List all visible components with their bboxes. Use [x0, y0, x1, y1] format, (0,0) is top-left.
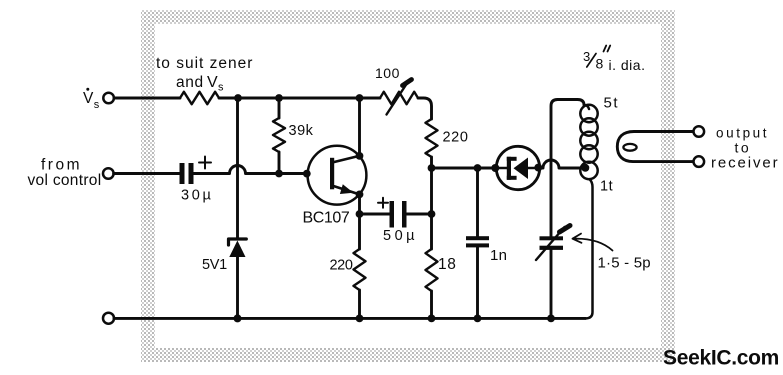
terminal from vol control: [103, 168, 114, 179]
svg-text:8: 8: [596, 56, 604, 72]
junction: [275, 94, 283, 102]
junction: [474, 164, 482, 172]
label Vs: [83, 88, 100, 111]
svg-text:50µ: 50µ: [383, 228, 418, 244]
svg-text:receiver: receiver: [711, 155, 780, 172]
terminal ground: [103, 313, 114, 324]
junction: [356, 152, 364, 160]
capacitor 50u: [360, 201, 432, 228]
junction: [474, 315, 482, 323]
capacitor 1n: [466, 168, 489, 318]
wire diode row: [432, 167, 497, 170]
wire: [219, 97, 380, 100]
zener 5V1: [229, 98, 247, 318]
svg-text:V: V: [83, 90, 94, 107]
capacitor 1.5-5p: [536, 226, 570, 319]
junction: [234, 94, 242, 102]
resistor 18: [426, 249, 438, 291]
wire: [430, 214, 433, 249]
svg-text:30µ: 30µ: [181, 188, 214, 204]
wire with hop over zener line: [194, 166, 308, 174]
junction: [356, 191, 364, 199]
svg-text:and: and: [176, 74, 204, 91]
svg-text:SeekIC.com: SeekIC.com: [663, 347, 779, 370]
junction: [303, 170, 311, 178]
junction: [356, 94, 364, 102]
label: to suit zener and Vs: [156, 55, 253, 94]
svg-text:s: s: [94, 99, 100, 111]
label 3/8 inch dia: [583, 49, 645, 73]
svg-text:BC107: BC107: [303, 210, 350, 227]
inductor 1t loop: [580, 162, 597, 319]
junction: [275, 170, 283, 178]
annotation arrow 1.5-5p: [573, 234, 613, 251]
svg-text:3: 3: [583, 49, 590, 64]
transistor Q1 BC107: [308, 146, 367, 205]
wire collector: [358, 98, 361, 156]
svg-text:5V1: 5V1: [202, 257, 227, 273]
inductor L1 5t: [580, 105, 597, 163]
wire: [430, 291, 433, 318]
tank left line and top wire: [551, 100, 584, 237]
svg-text:from: from: [41, 157, 82, 174]
junction: [428, 210, 436, 218]
svg-text:s: s: [218, 82, 224, 94]
svg-text:220: 220: [330, 258, 353, 274]
svg-text:5t: 5t: [604, 95, 620, 112]
svg-text:V: V: [207, 74, 218, 91]
svg-text:output: output: [716, 126, 769, 141]
label + 30u: [181, 157, 214, 204]
resistor 220 emitter: [354, 249, 366, 318]
potentiometer 100: [380, 92, 418, 104]
terminal output top: [694, 126, 705, 137]
terminal output bottom: [694, 156, 705, 167]
wire: [114, 172, 180, 175]
junction: [356, 315, 364, 323]
diode D1: [496, 146, 539, 189]
svg-text:to: to: [735, 140, 752, 156]
svg-text:to suit zener: to suit zener: [156, 55, 253, 72]
svg-text:1n: 1n: [490, 247, 507, 264]
label + 50u: [378, 198, 418, 244]
label from vol control: [28, 157, 102, 190]
junction: [428, 315, 436, 323]
wire: [430, 157, 433, 214]
capacitor 30u: [180, 163, 194, 184]
wire: [114, 97, 180, 100]
svg-text:1·5 - 5p: 1·5 - 5p: [598, 255, 651, 272]
wire emitter: [358, 194, 361, 249]
resistor 220 top: [426, 119, 438, 157]
terminal Vs: [103, 93, 114, 104]
svg-text:1t: 1t: [600, 179, 613, 195]
output coupling loop: [617, 132, 693, 162]
junction: [534, 164, 542, 172]
svg-text:220: 220: [443, 130, 469, 146]
svg-text:100: 100: [375, 65, 400, 81]
svg-text:vol control: vol control: [28, 172, 102, 189]
svg-text:39k: 39k: [289, 123, 314, 139]
wire: [418, 98, 432, 119]
wire bottom rail: [114, 317, 586, 320]
svg-text:18: 18: [438, 256, 456, 273]
svg-text:i. dia.: i. dia.: [609, 57, 646, 73]
junction: [491, 164, 499, 172]
label output to receiver: [711, 126, 780, 172]
resistor R1 (to suit zener and Vs): [180, 92, 219, 104]
junction: [428, 164, 436, 172]
wire with hop over tank line: [538, 160, 585, 168]
junction: [547, 315, 555, 323]
junction coil tap: [581, 164, 589, 172]
resistor 39k: [273, 98, 285, 174]
junction: [356, 210, 364, 218]
junction: [234, 314, 242, 322]
